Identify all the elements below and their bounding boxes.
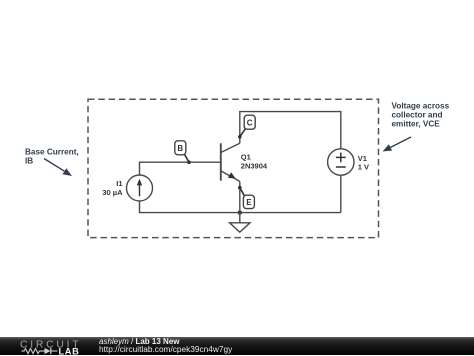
- label: Base Current, IB: [25, 147, 79, 165]
- svg-text:30 µA: 30 µA: [102, 188, 123, 197]
- ground: [230, 213, 250, 233]
- svg-text:Base Current,: Base Current,: [25, 147, 79, 156]
- svg-text:Q1: Q1: [241, 153, 251, 162]
- annotation box (dashed boundary): [88, 99, 379, 237]
- svg-text:E: E: [246, 198, 252, 207]
- wire: I1 top to transistor base: [140, 162, 221, 175]
- label Q1 / 2N3904: [241, 153, 268, 171]
- svg-text:I1: I1: [116, 179, 122, 188]
- arrow from Base Current label to box: [44, 159, 72, 177]
- svg-text:emitter, VCE: emitter, VCE: [392, 119, 441, 128]
- svg-text:B: B: [177, 144, 183, 153]
- wire: emitter down to bottom rail: [239, 181, 241, 212]
- svg-text:Voltage across: Voltage across: [392, 101, 450, 110]
- transistor Q1 (NPN 2N3904): [221, 143, 240, 181]
- node B: [175, 141, 191, 164]
- label V1 / 1 V: [358, 154, 369, 172]
- wire: V1 bottom stub: [340, 175, 342, 212]
- node E: [238, 186, 254, 209]
- CircuitLab logo: [0, 337, 95, 356]
- voltage source V1: [328, 149, 354, 175]
- arrow from VCE label to box: [383, 137, 412, 152]
- svg-text:collector and: collector and: [392, 110, 443, 119]
- svg-text:IB: IB: [25, 156, 33, 165]
- svg-text:1 V: 1 V: [358, 162, 369, 171]
- footer bar: [0, 337, 474, 356]
- wire: collector to top rail to V1: [240, 112, 341, 149]
- node C: [238, 115, 255, 138]
- junction at emitter/ground/bottom rail: [238, 210, 242, 214]
- footer title text: [99, 338, 179, 346]
- label: Voltage across collector and emitter, VCE: [392, 101, 450, 128]
- svg-text:2N3904: 2N3904: [241, 161, 268, 170]
- footer url text: [99, 345, 232, 353]
- current source I1: [127, 175, 153, 201]
- label I1 / 30 µA: [102, 179, 123, 197]
- svg-text:C: C: [247, 118, 253, 127]
- svg-text:LAB: LAB: [59, 346, 80, 356]
- wire: bottom rail from I1 to V1: [140, 201, 341, 213]
